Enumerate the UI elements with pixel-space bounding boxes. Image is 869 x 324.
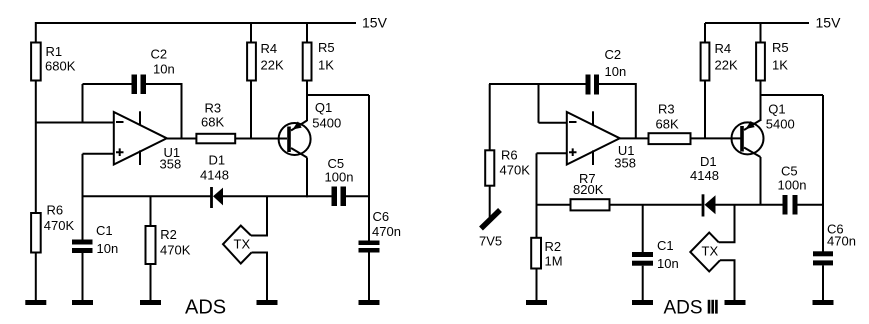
- capacitor C2 (right): [586, 75, 600, 95]
- wire: R4 top stub: [250, 23, 252, 43]
- wire: C6 to ground right: [822, 265, 824, 300]
- wire: emitter branch to right rail: [307, 94, 369, 96]
- wire: right rail down to C6: [368, 95, 370, 241]
- svg-text:C2: C2: [605, 47, 622, 62]
- wire: R3 to base right: [691, 137, 741, 139]
- svg-text:R5: R5: [772, 40, 789, 55]
- capacitor C6: [359, 241, 380, 253]
- svg-text:470K: 470K: [160, 242, 191, 257]
- wire: R6 top stub right: [489, 84, 491, 150]
- svg-text:470n: 470n: [372, 224, 401, 239]
- ground (TX): [257, 300, 278, 305]
- svg-text:R6: R6: [501, 148, 518, 163]
- op-amp U1 plus sign: [116, 148, 124, 156]
- transistor Q1 emitter diagonal: [291, 121, 307, 131]
- svg-text:15V: 15V: [816, 14, 842, 30]
- wire: feedback drop C2 left: [82, 84, 84, 123]
- transistor Q1 base bar right: [740, 126, 744, 152]
- wire: non-inverting input: [83, 153, 115, 155]
- capacitor C1: [72, 240, 93, 254]
- svg-text:ADS: ADS: [185, 297, 226, 319]
- svg-text:358: 358: [614, 155, 636, 170]
- svg-text:R3: R3: [205, 101, 222, 116]
- svg-text:4148: 4148: [690, 168, 719, 183]
- op-amp U1 (right): [567, 112, 620, 165]
- wire: bottom node to D1: [83, 195, 212, 197]
- wire: R5 top stub right: [760, 23, 762, 43]
- svg-text:4148: 4148: [200, 168, 229, 183]
- wire: minus node drop right: [538, 84, 540, 123]
- ground (C1 right): [632, 300, 653, 305]
- svg-text:R2: R2: [160, 227, 177, 242]
- capacitor C5 (right): [783, 195, 798, 215]
- wire: feedback left segment right circuit: [489, 83, 586, 85]
- wire: R6 lower stub right: [489, 186, 491, 217]
- svg-text:22K: 22K: [261, 58, 284, 73]
- wire: C5 to right rail: [346, 195, 369, 197]
- wire: R5 top stub: [306, 23, 308, 43]
- wire: R2 top: [150, 196, 152, 226]
- op-amp plus sign right: [569, 148, 577, 156]
- wire: TX bottom lead right: [720, 260, 735, 300]
- svg-text:R1: R1: [46, 44, 63, 59]
- resistor R3: [196, 134, 235, 144]
- wire: left top 15V rail: [36, 22, 356, 24]
- ground (C6): [359, 300, 380, 305]
- wire: C6 to ground: [368, 253, 370, 301]
- resistor R1: [31, 43, 41, 81]
- op-amp U1 power pin bottom: [139, 150, 141, 165]
- wire: Q1 collector drop: [306, 158, 308, 198]
- wire: R5 to Q1 emitter right: [760, 81, 762, 121]
- op-amp U1: [114, 112, 167, 165]
- transistor Q1 base bar: [287, 127, 291, 153]
- wire: feedback right segment: [146, 84, 182, 139]
- test point 7V5: [481, 210, 500, 229]
- wire: op-amp output right: [620, 137, 649, 139]
- transistor Q1: [279, 123, 311, 155]
- wire: R2 to ground right: [536, 270, 538, 301]
- capacitor C5: [332, 187, 347, 207]
- diode D1: [213, 188, 223, 206]
- wire: R7 to D1: [610, 204, 702, 206]
- svg-text:5400: 5400: [766, 117, 795, 132]
- op-amp power pin top right: [592, 111, 594, 125]
- svg-text:Q1: Q1: [315, 100, 332, 115]
- op-amp U1 minus sign: [116, 121, 124, 123]
- wire: TX top lead: [251, 196, 267, 235]
- svg-text:10n: 10n: [153, 62, 175, 77]
- svg-text:1K: 1K: [772, 58, 788, 73]
- resistor R3 (right): [649, 133, 691, 144]
- svg-text:470K: 470K: [44, 218, 75, 233]
- svg-text:R3: R3: [658, 101, 675, 116]
- crystal TX (right): [690, 233, 720, 272]
- svg-text:C1: C1: [657, 238, 674, 253]
- wire: D1 to C5: [223, 195, 332, 197]
- wire: feedback right segment right circuit: [599, 84, 636, 138]
- resistor R5 (right): [756, 43, 765, 81]
- wire: R3 to Q1 base: [235, 138, 287, 140]
- svg-text:10n: 10n: [657, 256, 679, 271]
- svg-text:C5: C5: [781, 164, 798, 179]
- wire: C1 to ground: [82, 253, 84, 300]
- resistor R4: [247, 43, 256, 81]
- svg-text:470n: 470n: [827, 234, 856, 249]
- svg-text:15V: 15V: [362, 14, 388, 30]
- svg-text:22K: 22K: [715, 58, 738, 73]
- resistor R5: [303, 43, 312, 81]
- resistor R7: [571, 199, 610, 210]
- transistor Q1 emitter diagonal right: [744, 120, 761, 130]
- resistor R4 (right): [701, 43, 710, 81]
- op-amp U1 power pin top: [139, 111, 141, 125]
- wire: plus node to R7: [537, 204, 571, 206]
- svg-text:C6: C6: [373, 209, 390, 224]
- svg-text:100n: 100n: [778, 178, 807, 193]
- transistor Q1 collector diagonal right: [744, 148, 761, 158]
- wire: op-amp output to R3: [167, 138, 196, 140]
- wire: inverting input: [36, 122, 114, 124]
- crystal TX: [223, 226, 252, 264]
- svg-text:D1: D1: [209, 153, 226, 168]
- diode D1 cathode bar: [210, 187, 213, 208]
- wire: C1 to ground right: [642, 266, 644, 300]
- wire: R6 to ground: [35, 253, 37, 301]
- svg-text:68K: 68K: [201, 115, 224, 130]
- svg-text:R5: R5: [318, 40, 335, 55]
- svg-text:100n: 100n: [325, 170, 354, 185]
- svg-text:ADS: ADS: [664, 298, 703, 319]
- svg-text:5400: 5400: [312, 115, 341, 130]
- resistor R6 (right): [485, 150, 494, 185]
- transistor Q1 emitter arrow: [293, 121, 302, 129]
- svg-text:C2: C2: [151, 47, 168, 62]
- svg-text:R4: R4: [715, 41, 732, 56]
- wire: feedback left segment: [83, 83, 133, 85]
- svg-text:R2: R2: [545, 239, 562, 254]
- wire: R5 to Q1 emitter: [306, 81, 308, 121]
- svg-text:TX: TX: [234, 237, 251, 252]
- svg-text:Q1: Q1: [768, 102, 785, 117]
- wire: R4 drop to base node: [250, 81, 252, 139]
- transistor Q1 emitter arrow right: [746, 121, 755, 129]
- ground (C6 right): [813, 300, 834, 305]
- diode D1 cathode bar right: [702, 194, 705, 216]
- svg-text:1K: 1K: [318, 58, 334, 73]
- svg-text:10n: 10n: [605, 64, 627, 79]
- wire: left rail top segment: [35, 22, 37, 43]
- wire: R4 drop right: [704, 81, 706, 138]
- svg-text:1M: 1M: [545, 254, 563, 269]
- wire: non-inverting input right: [537, 152, 568, 154]
- diode D1 (right): [705, 195, 716, 214]
- resistor R2: [146, 226, 156, 264]
- ground (TX right): [725, 300, 746, 305]
- wire: TX bottom lead: [252, 253, 268, 301]
- wire: inverting input right: [539, 122, 568, 124]
- wire: R2 to ground: [150, 264, 152, 300]
- transistor Q1 collector diagonal: [291, 148, 307, 158]
- ground (R2): [140, 300, 161, 305]
- resistor R2 (right): [531, 238, 541, 269]
- svg-text:R4: R4: [261, 41, 278, 56]
- svg-text:7V5: 7V5: [479, 234, 502, 249]
- svg-text:C1: C1: [96, 223, 113, 238]
- wire: right rail down to C6 right: [822, 95, 824, 252]
- resistor R6: [31, 213, 41, 253]
- wire: plus node drop: [82, 154, 84, 240]
- ground (R6): [25, 300, 46, 305]
- svg-text:TX: TX: [702, 244, 719, 259]
- ground (C1): [72, 300, 93, 305]
- wire: emitter branch right rail: [761, 94, 824, 96]
- capacitor C2: [132, 75, 147, 95]
- svg-text:10n: 10n: [97, 241, 119, 256]
- svg-text:R6: R6: [47, 203, 64, 218]
- wire: right top 15V rail: [705, 22, 809, 24]
- svg-text:470K: 470K: [500, 163, 531, 178]
- svg-text:68K: 68K: [656, 117, 679, 132]
- svg-text:680K: 680K: [45, 59, 76, 74]
- svg-text:358: 358: [160, 157, 182, 172]
- svg-text:820K: 820K: [573, 182, 604, 197]
- wire: C5 to right rail right: [798, 204, 824, 206]
- wire: left rail R1 to R6: [35, 81, 37, 213]
- wire: R4 top stub right: [704, 23, 706, 43]
- ground (R2 right): [526, 300, 547, 305]
- wire: TX drop right: [719, 205, 735, 243]
- transistor Q1 (right): [732, 122, 764, 154]
- wire: Q1 collector drop right: [760, 157, 762, 205]
- op-amp power pin bottom right: [592, 150, 594, 165]
- capacitor C6 (right): [813, 251, 833, 265]
- svg-text:D1: D1: [700, 154, 717, 169]
- op-amp minus sign right: [569, 121, 577, 123]
- capacitor C1 (right): [632, 252, 653, 266]
- wire: D1 to C5 right: [716, 204, 783, 206]
- wire: plus node drop right: [536, 153, 538, 237]
- wire: C1 drop right: [642, 205, 644, 252]
